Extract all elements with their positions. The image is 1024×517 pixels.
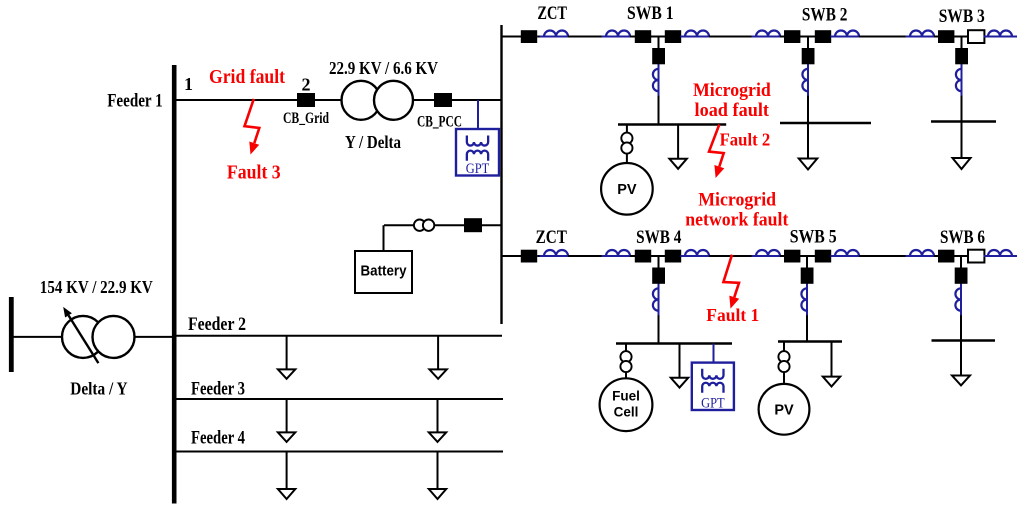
load arrow feeder3-1 — [278, 432, 295, 442]
svg-text:Delta / Y: Delta / Y — [70, 378, 127, 398]
breaker SWB4b — [665, 250, 681, 263]
svg-text:154 KV / 22.9 KV: 154 KV / 22.9 KV — [40, 277, 154, 297]
wire SWB2 down — [807, 64, 809, 99]
svg-text:Fault 3: Fault 3 — [227, 162, 281, 184]
CT coil — [831, 250, 864, 256]
wire SWB6 stub — [960, 256, 962, 268]
svg-text:Microgrid: Microgrid — [698, 190, 776, 211]
breaker CB_PCC — [434, 93, 452, 107]
breaker SWB4 feeder — [652, 268, 665, 284]
GPT transformer U1 — [456, 129, 499, 177]
CT coil — [602, 250, 635, 256]
load arrow feeder2-2 — [429, 369, 446, 378]
wire SWB3 down — [961, 98, 963, 158]
wire to PV2 — [783, 372, 785, 384]
svg-text:SWB 6: SWB 6 — [940, 227, 985, 248]
wire grid to T1 — [11, 336, 63, 338]
wire — [1012, 36, 1017, 38]
wire — [630, 255, 635, 257]
wire — [537, 36, 544, 38]
wire SWB4 to load bus — [658, 317, 660, 344]
wire SWB2 stub — [807, 37, 809, 49]
wire — [934, 255, 938, 257]
breaker SWB5b — [815, 250, 831, 263]
CT coil — [540, 31, 573, 37]
fault bolt Fault 3 — [245, 99, 260, 155]
breaker SWB6b — [968, 250, 984, 263]
CT coil SWB3 — [956, 64, 962, 95]
CT coil — [540, 250, 573, 256]
wire Feeder 3 — [177, 398, 504, 400]
breaker SWB5a — [784, 250, 800, 263]
svg-text:SWB 4: SWB 4 — [636, 227, 682, 248]
svg-text:22.9 KV / 6.6 KV: 22.9 KV / 6.6 KV — [329, 58, 439, 78]
transformer PV2 isolation — [778, 351, 789, 372]
bus grid-source bar — [9, 297, 14, 372]
breaker SWB2b — [815, 30, 831, 43]
GPT transformer U2 — [692, 363, 734, 412]
wire SWB6 down — [960, 317, 962, 376]
breaker SWB5 feeder — [801, 268, 814, 284]
wire — [568, 255, 606, 257]
wire — [831, 36, 835, 38]
breaker SWB2 feeder — [802, 48, 815, 64]
load arrow SWB6 — [952, 376, 970, 386]
svg-text:Feeder 1: Feeder 1 — [107, 91, 163, 112]
wire PV2 branch — [783, 342, 785, 353]
wire SWB3 stub — [961, 37, 963, 49]
wire GPT2 tap — [713, 344, 715, 363]
wire SWB1 to load bus — [658, 98, 660, 125]
svg-text:PV: PV — [774, 403, 794, 419]
wire Feeder 4 — [177, 451, 504, 453]
svg-text:Fuel: Fuel — [612, 389, 640, 404]
load arrow SWB3 — [953, 158, 971, 169]
CT coil SWB1 — [653, 64, 659, 95]
CT coil SWB6 — [955, 284, 961, 315]
wire — [630, 36, 635, 38]
CT coil SWB4 — [653, 284, 659, 315]
load arrow feeder4-2 — [429, 489, 446, 499]
svg-text:network fault: network fault — [685, 210, 789, 231]
load arrow feeder3-2 — [429, 432, 446, 442]
breaker SWB6 feeder — [955, 268, 968, 284]
svg-text:ZCT: ZCT — [537, 3, 567, 24]
wire — [780, 255, 784, 257]
svg-text:load fault: load fault — [695, 100, 770, 121]
ZCT breaker ZCT1 — [521, 30, 537, 43]
wire SWB3 down — [961, 64, 963, 99]
svg-text:ZCT: ZCT — [536, 227, 568, 248]
wire bus to ZCT — [502, 36, 522, 38]
wire — [780, 36, 784, 38]
wire — [984, 36, 988, 38]
svg-text:Cell: Cell — [614, 405, 639, 420]
breaker SWB3b — [968, 30, 984, 43]
wire SWB1 down — [658, 64, 660, 99]
wire — [709, 255, 756, 257]
bus microgrid vertical — [500, 25, 502, 324]
breaker SWB6a — [938, 250, 954, 263]
breaker battery — [464, 218, 482, 232]
wire — [709, 36, 756, 38]
svg-text:Feeder 3: Feeder 3 — [191, 379, 245, 400]
wire bus to ZCT — [502, 255, 522, 257]
transformer PV1 isolation — [621, 133, 632, 154]
wire SWB4 load drop — [679, 344, 681, 378]
wire SWB5 down — [806, 284, 808, 319]
wire — [681, 255, 685, 257]
wire — [1012, 255, 1017, 257]
svg-text:Feeder 2: Feeder 2 — [188, 314, 246, 335]
bus SWB2 load bar — [780, 122, 871, 124]
wire — [681, 36, 685, 38]
svg-text:Fault 1: Fault 1 — [706, 305, 759, 325]
fault bolt Fault 2 — [709, 125, 724, 179]
wire SWB5 stub — [806, 256, 808, 268]
breaker SWB1b — [665, 30, 681, 43]
wire battery to box — [383, 225, 385, 251]
CT coil — [752, 31, 785, 37]
wire Feeder 2 — [177, 335, 503, 337]
generator PV2 — [759, 384, 810, 435]
ZCT breaker ZCT2 — [521, 250, 537, 263]
svg-text:SWB 3: SWB 3 — [939, 6, 985, 27]
wire — [954, 255, 968, 257]
load arrow SWB1 — [669, 159, 686, 169]
svg-text:1: 1 — [184, 74, 193, 94]
svg-text:Battery: Battery — [361, 264, 407, 280]
svg-text:PV: PV — [617, 182, 637, 198]
wire feeder3 load1 — [286, 399, 288, 432]
svg-text:Y / Delta: Y / Delta — [345, 132, 401, 152]
wire — [800, 255, 815, 257]
battery storage unit — [355, 251, 412, 293]
wire — [800, 36, 815, 38]
CT coil — [602, 31, 635, 37]
breaker SWB3 feeder — [955, 48, 968, 64]
wire — [537, 255, 544, 257]
wire SWB2 down — [807, 98, 809, 159]
wire to PV1 — [626, 154, 628, 163]
wire — [831, 255, 835, 257]
wire SWB1 load drop — [677, 125, 679, 159]
wire CB_Grid to T2 — [315, 99, 342, 101]
breaker SWB1a — [635, 30, 651, 43]
label Fuel Cell — [612, 389, 640, 420]
fault bolt Fault 1 — [723, 255, 739, 309]
bus SWB5 load bar — [778, 340, 842, 343]
breaker CB_Grid — [297, 93, 315, 107]
wire SWB6 down — [960, 284, 962, 319]
wire GPT1 tap — [477, 100, 479, 129]
CT coil — [906, 250, 939, 256]
svg-text:GPT: GPT — [466, 161, 490, 177]
load arrow feeder2-1 — [278, 369, 295, 378]
wire feeder2 load2 — [437, 336, 439, 370]
transformer FC isolation — [620, 351, 631, 372]
bus SWB1 load bar — [618, 123, 726, 126]
svg-text:Feeder 4: Feeder 4 — [191, 428, 245, 449]
wire — [984, 255, 988, 257]
wire — [954, 36, 968, 38]
breaker SWB2a — [784, 30, 800, 43]
load arrow SWB5 — [823, 377, 840, 387]
svg-text:Grid fault: Grid fault — [209, 66, 285, 88]
CT coil SWB5 — [801, 284, 807, 315]
svg-text:CB_Grid: CB_Grid — [283, 110, 329, 127]
wire — [651, 36, 665, 38]
svg-text:SWB 2: SWB 2 — [802, 4, 848, 25]
wire SWB5 to load bus — [806, 317, 808, 342]
wire — [859, 255, 910, 257]
wire CB_PCC to bus — [452, 99, 502, 101]
load arrow feeder4-1 — [278, 489, 295, 499]
generator PV1 — [601, 163, 653, 215]
wire — [934, 36, 938, 38]
wire feeder2 load1 — [286, 336, 288, 370]
bus main 22.9kV — [172, 65, 177, 504]
wire — [651, 255, 665, 257]
wire battery branch — [384, 224, 502, 226]
wire FC branch — [625, 344, 627, 353]
wire T2 to CB_PCC — [413, 99, 434, 101]
svg-text:Microgrid: Microgrid — [693, 80, 771, 101]
svg-text:SWB 1: SWB 1 — [627, 3, 674, 24]
wire — [568, 36, 606, 38]
CT coil — [984, 250, 1017, 256]
wire — [859, 36, 910, 38]
wire feeder3 load2 — [437, 399, 439, 432]
wire feeder1 seg1 — [176, 99, 297, 101]
CT coil — [752, 250, 785, 256]
generator Fuel Cell — [600, 378, 653, 431]
breaker SWB1 feeder — [652, 48, 665, 64]
bus SWB6 load bar — [932, 339, 996, 341]
CT coil — [906, 31, 939, 37]
load arrow SWB2 — [799, 159, 818, 170]
svg-text:2: 2 — [302, 75, 311, 95]
transformer battery isolation — [414, 220, 434, 231]
transformer T1 154/22.9 kV — [62, 307, 172, 363]
svg-text:SWB 5: SWB 5 — [790, 227, 837, 248]
CT coil — [984, 31, 1017, 37]
svg-text:GPT: GPT — [701, 395, 725, 411]
CT coil — [681, 250, 714, 256]
wire to FC — [625, 372, 627, 379]
wire feeder4 load1 — [286, 452, 288, 490]
wire SWB4 stub — [658, 256, 660, 268]
wire SWB4 down — [658, 284, 660, 319]
wire PV1 branch — [626, 125, 628, 134]
bus SWB3 load bar — [931, 120, 996, 122]
bus SWB4 load bar — [616, 342, 732, 345]
CT coil — [831, 31, 864, 37]
wire feeder4 load2 — [437, 452, 439, 490]
wire SWB5 load drop — [831, 342, 833, 377]
CT coil — [681, 31, 714, 37]
CT coil SWB2 — [802, 64, 808, 95]
transformer T2 22.9/6.6 kV — [342, 81, 414, 120]
breaker SWB3a — [938, 30, 954, 43]
load arrow SWB4 — [671, 378, 688, 388]
breaker SWB4a — [635, 250, 651, 263]
svg-text:Fault 2: Fault 2 — [720, 129, 771, 149]
wire SWB1 stub — [658, 37, 660, 49]
